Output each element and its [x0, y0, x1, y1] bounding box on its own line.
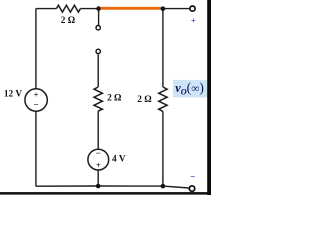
terminal a (open circle, top right) — [190, 6, 195, 11]
highlight box for vo label — [173, 80, 208, 98]
wire: middle branch lower — [97, 111, 99, 149]
node A junction dot — [96, 6, 101, 11]
svg-text:12 V: 12 V — [4, 90, 22, 100]
svg-text:−: − — [190, 172, 195, 182]
wire: middle branch upper — [97, 54, 99, 87]
svg-text:+: + — [191, 16, 196, 26]
wire: bottom rail — [36, 186, 189, 188]
svg-text:+: + — [96, 160, 101, 170]
voltage source V1 12V — [25, 89, 47, 111]
wire: highlighted orange segment — [101, 7, 162, 10]
wire: middle branch to bottom — [97, 170, 99, 186]
node B junction dot — [161, 6, 166, 11]
wire: switch stub from node A — [98, 9, 100, 25]
wire: left branch bottom segment — [35, 111, 37, 186]
svg-text:2 Ω: 2 Ω — [107, 94, 122, 104]
wire: top middle — [80, 8, 99, 10]
voltage source V2 4V — [88, 149, 109, 170]
svg-text:2 Ω: 2 Ω — [137, 95, 152, 105]
wire: top right to terminal — [163, 8, 190, 10]
resistor R1 2ohm top — [56, 5, 80, 12]
wire: right branch lower — [162, 111, 164, 186]
svg-text:−: − — [34, 100, 39, 110]
scan border bottom bar — [0, 192, 211, 195]
svg-text:−: − — [96, 148, 101, 158]
svg-text:4 V: 4 V — [112, 154, 126, 164]
wire: top left — [36, 8, 57, 10]
switch upper terminal (open circle) — [96, 26, 100, 30]
svg-text:2 Ω: 2 Ω — [61, 16, 76, 26]
resistor R3 2ohm right — [159, 87, 167, 111]
svg-text:vO(∞): vO(∞) — [175, 80, 204, 97]
svg-text:+: + — [34, 89, 39, 99]
scan border right bar — [207, 0, 211, 195]
switch lower terminal (open circle) — [96, 49, 100, 53]
wire: right branch upper — [162, 9, 164, 87]
node C junction dot (bottom middle) — [96, 184, 101, 189]
terminal b (open circle, bottom right) — [189, 186, 194, 191]
wire: left branch top segment — [35, 9, 37, 89]
node D junction dot (bottom right) — [161, 184, 166, 189]
resistor R2 2ohm middle — [94, 87, 102, 111]
